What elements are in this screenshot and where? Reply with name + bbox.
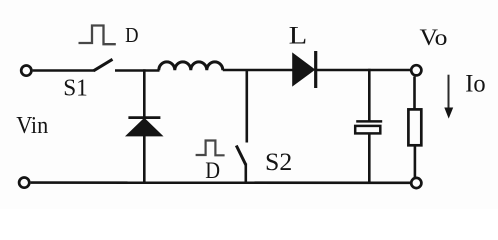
svg-text:Vo: Vo [420,25,448,51]
Io arrowhead [444,108,453,119]
output terminal Vo [411,65,421,75]
wire: series diode to Vo terminal (node C junction) [317,69,411,72]
switch S1 blade [94,59,113,71]
bottom rail wire [31,181,411,184]
svg-text:D: D [125,23,138,47]
svg-text:Vin: Vin [16,113,48,139]
svg-text:Io: Io [465,70,485,97]
output capacitor branch: wire from node C down [368,69,371,122]
input return terminal (bottom left) [19,178,29,188]
input terminal (top left) [21,66,31,76]
svg-text:L: L [289,22,308,49]
gate pulse waveform for S2 [196,141,225,156]
Io arrow shaft [448,75,450,110]
wire: load resistor to bottom-right terminal [414,145,417,177]
wire: inductor to series diode (node B junction) [223,69,294,72]
capacitor: wire down to bottom rail [368,133,371,182]
switch S2 blade (open, leaning left) [236,146,246,165]
series diode D2 cathode bar [314,51,317,88]
freewheeling diode D1: wire down to bottom rail [143,135,146,182]
wire: top-left terminal to switch S1 [33,69,94,72]
gate pulse waveform for S1 [79,26,116,45]
svg-text:D: D [205,158,220,184]
freewheeling diode D1 triangle (pointing up) [126,118,162,135]
freewheeling diode D1: wire from node A down [143,69,146,117]
series diode D2 triangle (pointing right) [293,53,315,85]
switch S2 branch: wire from node B down (fixed contact) [246,69,249,143]
inductor coil [159,62,223,70]
freewheeling diode D1 cathode bar [128,116,160,119]
load resistor R [408,109,421,145]
capacitor bottom plate (hollow box) [355,126,380,133]
svg-text:S1: S1 [63,76,88,102]
output return terminal (bottom right) [411,178,421,188]
wire: S1 contact to inductor (top rail, node A junction) [115,69,160,72]
svg-text:S2: S2 [265,149,292,176]
capacitor top plate [356,120,382,123]
switch S2: wire from pivot to bottom rail [245,164,248,183]
wire: Vo terminal down to load resistor [413,77,416,111]
